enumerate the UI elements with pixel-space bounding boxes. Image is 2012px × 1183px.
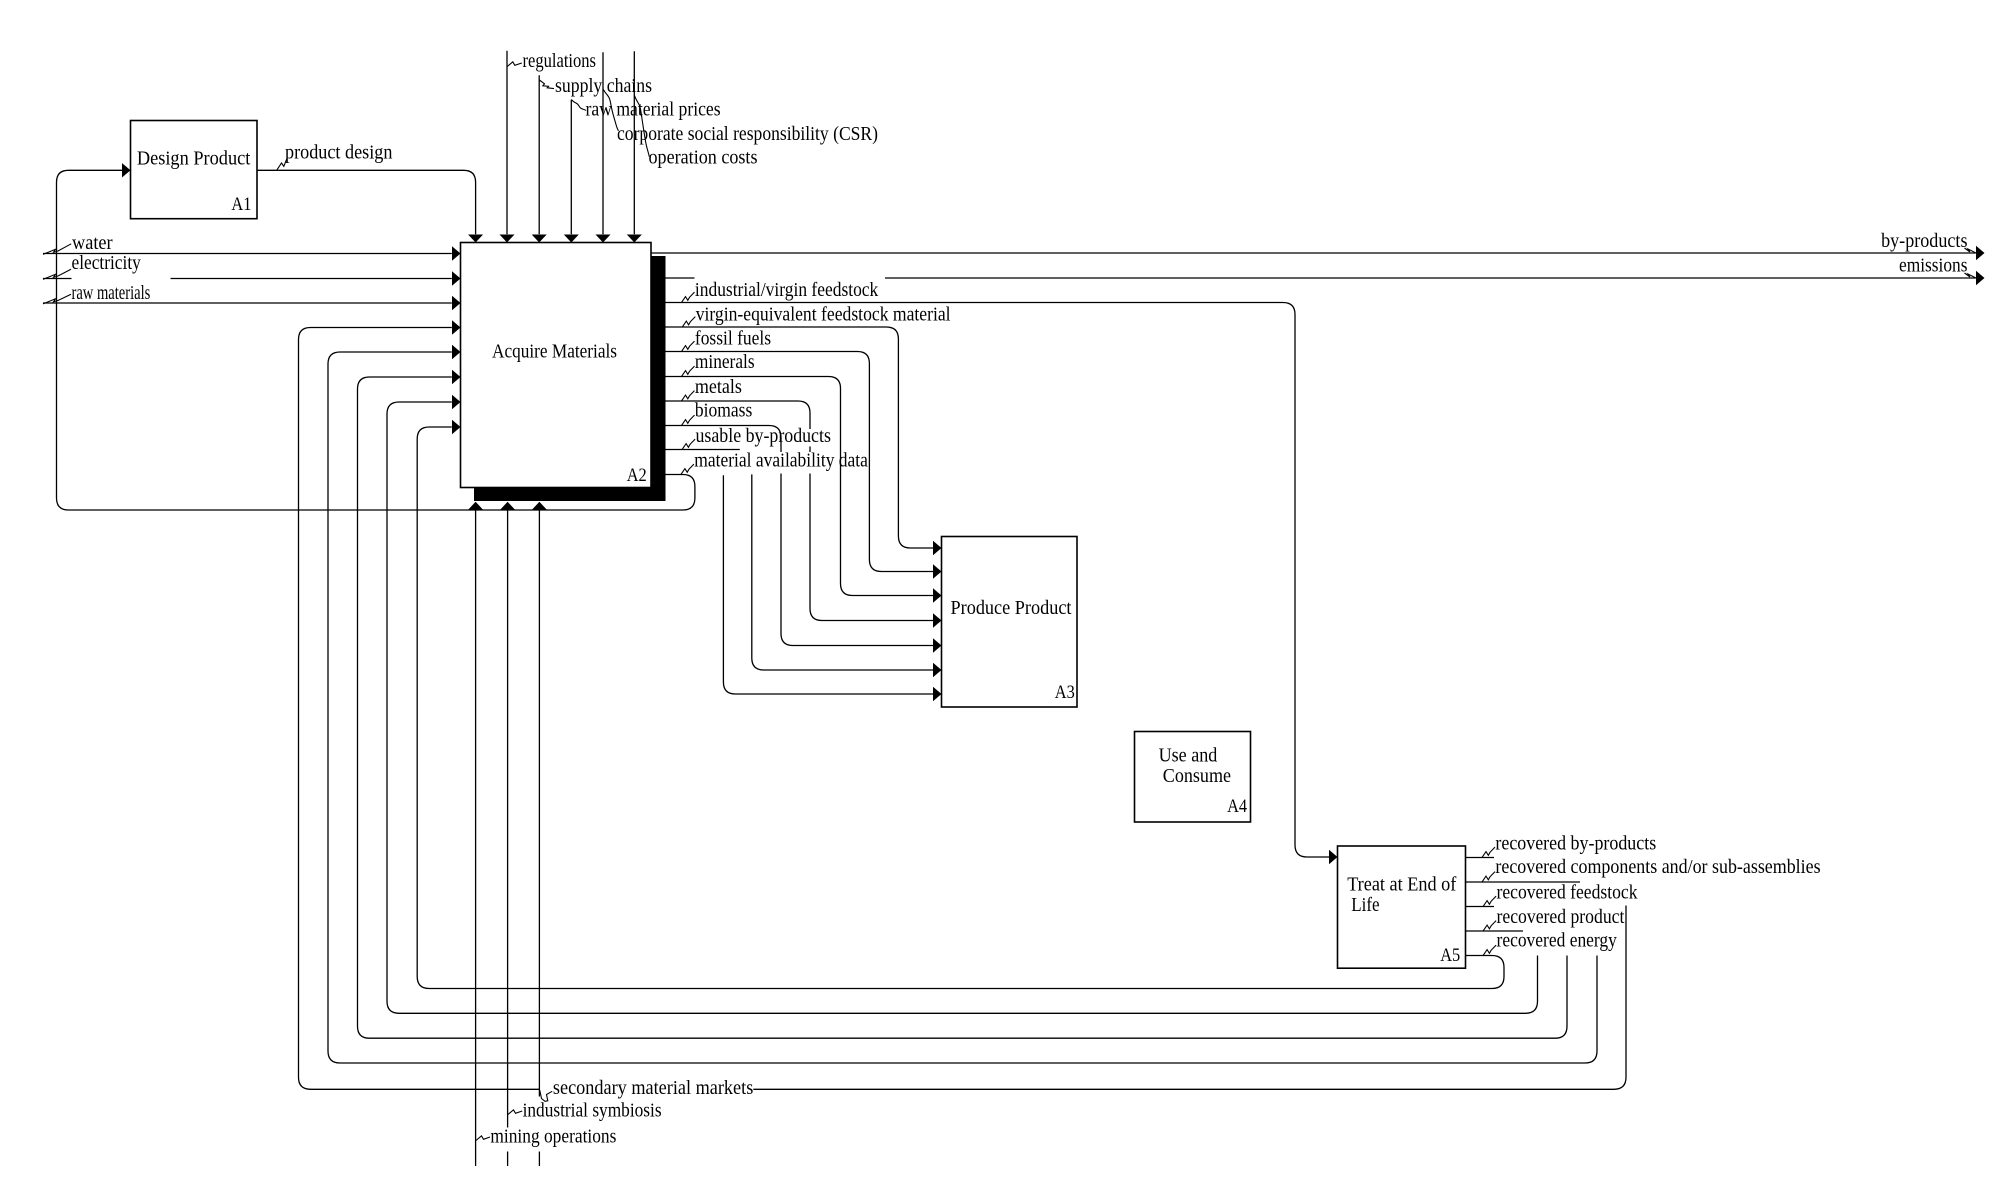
wire secondary material markets mechanism (gap behind labels) <box>538 510 540 1166</box>
squiggle regulations <box>507 62 522 67</box>
svg-text:Design Product: Design Product <box>137 149 251 170</box>
arrowhead product design into A2 top <box>468 235 483 243</box>
arrowhead fossil fuels into A3 <box>933 564 942 578</box>
svg-text:A1: A1 <box>231 194 251 215</box>
svg-text:emissions: emissions <box>1899 256 1968 277</box>
arrowhead electricity into A2 <box>452 271 461 285</box>
arrowhead raw materials into A2 <box>452 296 461 310</box>
squiggle product design <box>277 159 287 170</box>
svg-text:virgin-equivalent feedstock ma: virgin-equivalent feedstock material <box>696 305 951 326</box>
box A2 shadow <box>474 256 666 501</box>
wire metals A2->A3 (gaps behind labels) <box>666 401 934 621</box>
squiggle material availability data <box>681 464 694 475</box>
squiggle water <box>43 244 71 255</box>
svg-text:corporate social responsibilit: corporate social responsibility (CSR) <box>617 124 878 145</box>
squiggle usable by-products <box>682 439 695 450</box>
arrowhead emissions right edge <box>1976 271 1985 285</box>
wire by-products output <box>651 252 1976 254</box>
arrowhead minerals into A3 <box>933 588 942 602</box>
svg-text:industrial symbiosis: industrial symbiosis <box>523 1101 662 1122</box>
arrowhead into A5 left <box>1329 850 1338 864</box>
wire water input <box>43 253 452 255</box>
squiggle biomass <box>681 415 694 426</box>
arrowhead recovered by-products into A2 <box>452 320 461 334</box>
wire industrial/virgin feedstock A2->A5 <box>666 303 1330 858</box>
arrowhead raw material prices into A2 top <box>564 235 579 243</box>
wire recovered product stub <box>1466 930 1524 932</box>
svg-text:minerals: minerals <box>695 352 755 373</box>
svg-text:recovered product: recovered product <box>1497 907 1625 928</box>
squiggle supply chains <box>539 80 554 89</box>
svg-text:Life: Life <box>1351 895 1379 916</box>
leader corporate social responsibility <box>603 89 618 131</box>
svg-text:mining operations: mining operations <box>490 1127 616 1148</box>
squiggle fossil fuels <box>681 341 694 352</box>
svg-text:Use and: Use and <box>1159 745 1218 766</box>
wire mining operations mechanism <box>475 510 477 1166</box>
squiggle recovered components <box>1482 872 1495 883</box>
arrowhead virgin-equivalent into A3 <box>933 541 942 555</box>
arrowhead into A1 left <box>122 163 131 177</box>
svg-text:industrial/virgin feedstock: industrial/virgin feedstock <box>695 280 879 301</box>
squiggle recovered energy <box>1483 945 1496 956</box>
svg-text:recovered by-products: recovered by-products <box>1495 834 1656 855</box>
wire biomass A2->A3 (gap behind label) <box>666 426 934 646</box>
svg-text:product design: product design <box>285 143 393 164</box>
svg-text:by-products: by-products <box>1881 231 1967 252</box>
wire recovered by-products loop / secondary material markets <box>299 328 1627 1090</box>
svg-text:A3: A3 <box>1055 682 1075 703</box>
arrowhead industrial symbiosis into A2 bottom <box>500 502 515 510</box>
squiggle mining operations <box>476 1136 490 1141</box>
squiggle by-products right <box>1965 248 1978 254</box>
wire material availability data branch to A3 (top hidden by label) <box>723 475 933 694</box>
wire material availability data loop A2->A1 <box>57 170 695 510</box>
arrowhead supply chains into A2 top <box>532 235 547 243</box>
svg-text:Consume: Consume <box>1163 766 1231 787</box>
svg-text:water: water <box>72 233 113 254</box>
svg-text:metals: metals <box>695 377 742 398</box>
arrowhead recovered components into A2 <box>452 345 461 359</box>
wire recovered by-products stub <box>1466 857 1495 859</box>
svg-text:secondary material markets: secondary material markets <box>553 1078 753 1099</box>
arrowhead regulations into A2 top <box>500 235 515 243</box>
squiggle recovered product <box>1483 921 1496 932</box>
svg-text:operation costs: operation costs <box>649 148 758 169</box>
arrowhead by-products right edge <box>1976 246 1985 260</box>
arrowhead recovered feedstock into A2 <box>452 370 461 384</box>
svg-text:Acquire Materials: Acquire Materials <box>492 342 617 363</box>
leader raw material prices <box>571 100 586 111</box>
svg-text:Treat at End of: Treat at End of <box>1347 875 1457 896</box>
wire industrial symbiosis mechanism (gap behind label) <box>507 510 509 1166</box>
squiggle secondary material markets <box>540 1090 552 1101</box>
svg-text:recovered components and/or su: recovered components and/or sub-assembli… <box>1495 857 1820 878</box>
box A2 Acquire Materials <box>461 243 652 488</box>
svg-text:recovered energy: recovered energy <box>1497 931 1618 952</box>
wire corporate social responsibility control <box>602 52 604 234</box>
wire raw material prices control <box>570 100 572 234</box>
box A4 Use and Consume <box>1135 732 1251 823</box>
svg-text:A4: A4 <box>1227 796 1247 817</box>
arrowhead recovered product into A2 <box>452 395 461 409</box>
svg-text:regulations: regulations <box>523 51 597 72</box>
arrowhead operation costs into A2 top <box>627 235 642 243</box>
arrowhead mining operations into A2 bottom <box>468 502 483 510</box>
wire recovered energy loop A5->A2 <box>417 427 1504 989</box>
wire fossil fuels A2->A3 <box>666 352 934 572</box>
svg-text:usable by-products: usable by-products <box>696 426 831 447</box>
svg-text:biomass: biomass <box>695 401 752 422</box>
squiggle electricity <box>43 269 71 279</box>
squiggle minerals <box>681 366 694 377</box>
arrowhead metals into A3 <box>933 613 942 627</box>
arrowhead secondary mat. markets into A2 bottom <box>532 502 547 510</box>
wire usable by-products A2->A3 (bend hidden by label) <box>666 450 934 671</box>
squiggle recovered feedstock <box>1483 896 1496 907</box>
svg-text:supply chains: supply chains <box>555 76 652 97</box>
wire recovered components loop (bend hidden) <box>328 352 1597 1063</box>
wire recovered feedstock loop (bend hidden) <box>358 377 1568 1038</box>
arrowhead usable by-products into A3 <box>933 663 942 677</box>
box A3 Produce Product <box>942 537 1078 708</box>
svg-text:Produce Product: Produce Product <box>951 598 1073 619</box>
squiggle recovered by-products <box>1482 847 1495 858</box>
wire virgin-equivalent feedstock material A2->A3 <box>666 327 934 548</box>
svg-text:A2: A2 <box>627 465 647 486</box>
squiggle metals <box>681 391 694 402</box>
arrowhead material availability data into A3 <box>933 687 942 701</box>
svg-text:A5: A5 <box>1440 945 1460 966</box>
wire operation costs control <box>633 51 635 234</box>
arrowhead recovered energy into A2 <box>452 420 461 434</box>
squiggle industrial/virgin feedstock <box>681 292 694 303</box>
svg-text:raw materials: raw materials <box>72 283 151 304</box>
svg-text:fossil fuels: fossil fuels <box>695 328 771 349</box>
wire supply chains control <box>538 75 540 234</box>
wire electricity input (two visible segments) <box>43 278 452 280</box>
box A1 Design Product <box>131 121 258 219</box>
wire recovered components stub <box>1466 881 1581 883</box>
wire product design A1->A2 control <box>257 170 476 234</box>
svg-text:raw material prices: raw material prices <box>586 100 721 121</box>
arrowhead water into A2 <box>452 246 461 260</box>
wire emissions output (gap behind label) <box>666 277 1976 279</box>
leader operation costs <box>634 95 649 157</box>
squiggle emissions right <box>1965 273 1978 279</box>
arrowhead CSR into A2 top <box>596 235 611 243</box>
squiggle industrial symbiosis <box>508 1110 522 1115</box>
box A5 Treat at End of Life <box>1338 846 1466 968</box>
arrowhead biomass into A3 <box>933 638 942 652</box>
svg-text:electricity: electricity <box>72 253 142 274</box>
wire minerals A2->A3 <box>666 377 934 596</box>
squiggle virgin-equivalent <box>682 317 695 328</box>
svg-text:material availability data: material availability data <box>694 451 868 472</box>
wire recovered product loop (bend hidden) <box>387 402 1538 1013</box>
wire recovered feedstock stub <box>1466 906 1495 908</box>
wire regulations control <box>506 51 508 235</box>
svg-text:recovered feedstock: recovered feedstock <box>1497 883 1638 904</box>
wire raw materials input <box>43 302 452 304</box>
squiggle raw materials <box>43 294 71 304</box>
